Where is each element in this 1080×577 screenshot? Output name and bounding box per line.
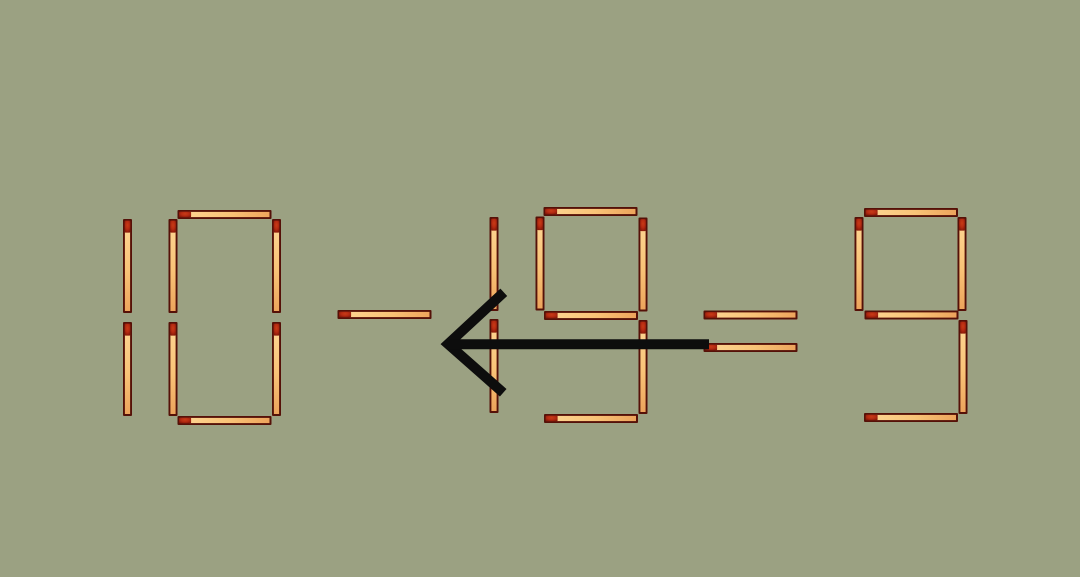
arrow shaft xyxy=(449,339,709,349)
digit 9 (result) top matchstick xyxy=(864,208,958,217)
digit 0 top-right matchstick xyxy=(272,219,281,313)
minus sign matchstick xyxy=(338,310,432,319)
digit 9 (result) top-right matchstick xyxy=(958,217,967,311)
digit 9 (of 19) middle matchstick xyxy=(544,311,638,320)
digit 9 (of 19) top matchstick xyxy=(544,207,638,216)
digit 0 bottom matchstick xyxy=(178,416,272,425)
arrow head (left-pointing barbs) xyxy=(448,292,504,392)
digit 0 top matchstick xyxy=(178,210,272,219)
digit 1 (of 19) upper matchstick xyxy=(490,217,499,311)
digit 0 bottom-right matchstick xyxy=(272,322,281,416)
digit 0 bottom-left matchstick xyxy=(169,322,178,416)
digit 1 (of 10) upper matchstick xyxy=(123,219,132,313)
equals sign upper matchstick xyxy=(704,311,798,320)
digit 1 (of 19) lower matchstick xyxy=(490,319,499,413)
digit 9 (of 19) top-right matchstick xyxy=(639,218,648,312)
equals sign lower matchstick xyxy=(704,343,798,352)
digit 0 top-left matchstick xyxy=(169,219,178,313)
digit 9 (of 19) bottom-right matchstick xyxy=(639,320,648,414)
digit 9 (result) middle matchstick xyxy=(865,311,959,320)
digit 9 (of 19) top-left matchstick xyxy=(536,217,545,311)
digit 9 (result) bottom-right matchstick xyxy=(959,320,968,414)
digit 9 (result) top-left matchstick xyxy=(855,217,864,311)
digit 1 (of 10) lower matchstick xyxy=(123,322,132,416)
digit 9 (result) bottom matchstick xyxy=(864,413,958,422)
digit 9 (of 19) bottom matchstick xyxy=(544,414,638,423)
